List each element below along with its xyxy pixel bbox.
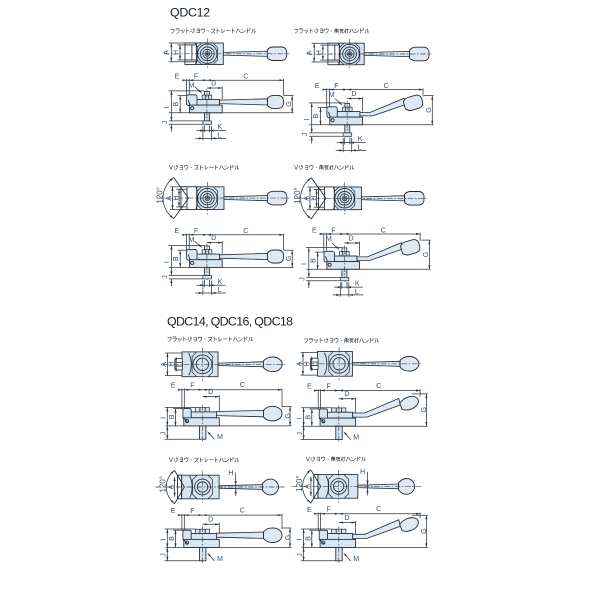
G7 front view: pivot marker bbox=[185, 541, 188, 544]
G8 front view: handle hub arm bbox=[327, 534, 353, 540]
G1 top view: jaw plate area bbox=[185, 43, 196, 65]
G8 front view: vertical centerline bbox=[338, 527, 340, 564]
G4 front view: K extension lines bbox=[341, 282, 343, 289]
G4 front view: bent handle rod bbox=[357, 243, 403, 261]
G4 top view: boss rosette circle bbox=[335, 189, 354, 208]
G6 front view: dimension G bbox=[425, 394, 427, 426]
G7 front view: dimension B bbox=[175, 530, 177, 547]
G3 front view: dimension B bbox=[179, 250, 181, 267]
G1 top view: handle knob bbox=[267, 47, 287, 61]
G4 front view: body block bbox=[327, 262, 360, 270]
svg-text:D: D bbox=[344, 514, 349, 522]
G8 top view: jaw spring clip bbox=[326, 476, 328, 497]
G3 front view: top stud bbox=[205, 246, 210, 250]
G7 top view: boss square with chamfered corners bbox=[193, 475, 213, 499]
G2 front view: dimension G bbox=[431, 96, 433, 125]
G7 top view: jaw spring clip bbox=[190, 476, 192, 497]
G6 top view: jaw pad lines bbox=[310, 361, 318, 363]
G1 top view: knurled nut rings bbox=[200, 47, 214, 61]
G8 top view: body block bbox=[314, 475, 358, 499]
svg-text:M: M bbox=[353, 434, 359, 442]
G5 front view: B top extension line bbox=[173, 408, 183, 410]
svg-text:I: I bbox=[300, 263, 308, 265]
G3 front view: dimension J bbox=[170, 279, 172, 286]
G7 front view: E extension lines bbox=[181, 514, 183, 531]
G7 top view: vertical centerline bbox=[202, 471, 204, 503]
svg-text:L: L bbox=[358, 143, 362, 151]
G5 top view: handle knob bbox=[263, 357, 282, 372]
G1 front view: vertical centerline bbox=[206, 89, 208, 127]
G1 front view: top stud bbox=[205, 91, 210, 95]
svg-text:M: M bbox=[217, 555, 223, 563]
G3 front view: stud collar bbox=[203, 276, 212, 279]
svg-text:B: B bbox=[304, 536, 312, 541]
G7 front view: dimension row line E-F-C bbox=[178, 514, 282, 516]
G7 front view: dimension I bbox=[166, 529, 168, 548]
G2 front view: jaw bbox=[327, 107, 337, 118]
svg-text:J: J bbox=[298, 277, 306, 281]
G3 top view: handle knob bbox=[267, 191, 287, 205]
G3 front view: M leader arrow bbox=[195, 241, 202, 247]
G3 top view: dimension A bbox=[172, 187, 174, 210]
G4 front view: F arrows bbox=[340, 233, 344, 235]
G5 top view: dimension A extension lines bbox=[165, 352, 182, 354]
G1 front view: body bottom extension line bbox=[169, 112, 294, 114]
svg-text:G: G bbox=[284, 413, 292, 419]
svg-text:E: E bbox=[315, 82, 320, 90]
G4 front view: dimension K line bbox=[334, 286, 363, 288]
G5 front view: jaw bbox=[183, 409, 191, 419]
svg-text:D: D bbox=[344, 390, 349, 398]
G1 front view: flange nut bbox=[202, 95, 212, 99]
svg-text:B: B bbox=[168, 414, 176, 419]
G1 top view: handle rod bbox=[223, 51, 267, 56]
G7 front view: G top extension line bbox=[282, 527, 291, 529]
G2 front view: dimension L line bbox=[336, 149, 367, 151]
G4 front view: C arrows bbox=[344, 233, 348, 235]
G6 front view: B top extension line bbox=[309, 408, 319, 410]
G2 front view: G top extension line bbox=[424, 95, 434, 97]
svg-text:C: C bbox=[243, 227, 248, 235]
G1 front view: body block bbox=[190, 105, 223, 113]
G2 front view: bent handle rod bbox=[360, 98, 406, 116]
G4 front view: vertical centerline bbox=[343, 245, 345, 283]
G8 top view: jaw area bbox=[314, 475, 318, 499]
G8 front view: C arrows bbox=[339, 513, 343, 515]
G5 front view: handle rod bbox=[216, 410, 263, 416]
G2 front view: dimension D bbox=[347, 98, 362, 100]
G3 front view: jaw inner edge bbox=[188, 255, 190, 262]
G8 top view: V-groove faces bbox=[311, 470, 321, 503]
G3 top view: dimension H bbox=[178, 189, 180, 207]
G1 top view: dimension A bbox=[170, 43, 172, 62]
G2 front view: handle knob bbox=[403, 94, 424, 112]
svg-text:B: B bbox=[304, 415, 312, 420]
G2 top view: knurled nut rings bbox=[343, 47, 357, 61]
G5 front view: handle hub arm bbox=[191, 412, 217, 418]
G5 front view: M leader arrow bbox=[208, 432, 214, 439]
G7 front view: dimension G bbox=[289, 528, 291, 548]
svg-text:K: K bbox=[218, 278, 223, 286]
svg-text:F: F bbox=[194, 227, 199, 235]
G1 top view: vertical centerline bbox=[206, 38, 208, 69]
svg-text:E: E bbox=[171, 382, 176, 390]
G5 front view: vertical centerline bbox=[202, 405, 204, 442]
G7 top view: boss ring inner bbox=[197, 482, 207, 492]
G1 front view: C arrows bbox=[207, 79, 211, 81]
G3 front view: flange nut bbox=[202, 250, 212, 254]
G3 front view: lower stud bbox=[205, 267, 210, 275]
G5 front view: E extension lines bbox=[181, 389, 183, 410]
G4 front view: dimension I bbox=[308, 247, 310, 277]
G6 front view: lower stud bbox=[336, 426, 342, 439]
G1 front view: C right extension line bbox=[283, 79, 285, 96]
G6 front view: C arrows bbox=[339, 389, 343, 391]
G6 top view: horizontal centerline bbox=[299, 363, 423, 365]
G8 top view: boss ring outer bbox=[331, 479, 347, 495]
G7 front view: handle rod bbox=[216, 532, 263, 538]
G2 front view: stud collar bbox=[343, 133, 352, 136]
G5 top view: dimension H bbox=[175, 363, 177, 367]
G7 top view: dimension A bbox=[174, 477, 176, 497]
G7 top view: boss ring outer bbox=[195, 479, 211, 495]
G5 front view: dimension D bbox=[203, 396, 220, 398]
G6 front view: dimension row line E-F-C bbox=[315, 390, 420, 392]
G2 front view: D right extension line bbox=[362, 97, 364, 111]
svg-text:B: B bbox=[309, 258, 317, 263]
G1 front view: jaw bbox=[187, 95, 197, 106]
G7 front view: body block bbox=[184, 539, 220, 547]
G8 front view: E extension lines bbox=[317, 513, 319, 531]
G2 front view: J extension lines bbox=[309, 132, 343, 134]
G2 front view: top stud bbox=[345, 103, 350, 107]
svg-text:A: A bbox=[163, 50, 171, 55]
G5 front view: G top extension line bbox=[282, 405, 291, 407]
svg-text:E: E bbox=[312, 226, 317, 234]
G7 top view: body block bbox=[178, 475, 220, 499]
caption flat-jaw straight-handle (G5) bbox=[168, 337, 253, 342]
G4 front view: flange nut bbox=[340, 252, 350, 256]
G2 front view: E extension lines bbox=[326, 88, 328, 107]
G6 top view: dimension A extension lines bbox=[301, 352, 318, 354]
G8 front view: D right extension line bbox=[355, 521, 357, 535]
svg-text:C: C bbox=[243, 73, 248, 81]
G3 front view: body bottom extension line bbox=[169, 266, 294, 268]
G7 front view: I top extension line bbox=[165, 528, 195, 530]
G6 top view: handle knob bbox=[400, 357, 419, 372]
svg-text:M: M bbox=[326, 235, 332, 243]
svg-text:L: L bbox=[218, 131, 222, 139]
G5 front view: handle knob bbox=[264, 406, 282, 421]
svg-text:D: D bbox=[208, 388, 213, 396]
G1 front view: D right extension line bbox=[221, 87, 223, 100]
G4 top view: handle knob bbox=[405, 192, 425, 206]
caption V-jaw angle-handle (G4) bbox=[294, 165, 353, 170]
svg-text:J: J bbox=[161, 120, 169, 124]
G6 front view: dimension D bbox=[339, 398, 356, 400]
G1 front view: dimension row line E-F-C bbox=[183, 79, 284, 81]
caption flat-jaw straight-handle (G1) bbox=[171, 28, 256, 33]
G2 front view: body bottom extension line bbox=[309, 124, 433, 126]
G7 top view: 120 degree arc bbox=[166, 470, 174, 503]
G1 top view: boss square with chamfered corners bbox=[197, 43, 217, 65]
G2 front view: pivot marker bbox=[331, 119, 334, 122]
svg-text:F: F bbox=[190, 507, 195, 515]
G5 front view: dimension row line E-F-C bbox=[178, 389, 282, 391]
svg-text:G: G bbox=[420, 528, 428, 534]
G4 front view: C right extension line bbox=[419, 233, 421, 241]
G1 front view: E arrows bbox=[182, 79, 186, 81]
G6 top view: body block bbox=[318, 351, 353, 376]
G5 top view: jaw pad lines bbox=[175, 362, 183, 364]
G5 front view: dimension B bbox=[175, 409, 177, 426]
G3 top view: boss rosette circle bbox=[198, 188, 217, 207]
svg-text:QDC14, QDC16, QDC18: QDC14, QDC16, QDC18 bbox=[167, 314, 293, 328]
svg-text:F: F bbox=[334, 82, 339, 90]
G2 front view: body block bbox=[330, 117, 363, 125]
svg-text:M: M bbox=[189, 81, 195, 89]
G1 front view: stud collar bbox=[203, 121, 212, 124]
G1 front view: I top extension line bbox=[169, 90, 205, 92]
G6 front view: dimension I bbox=[303, 408, 305, 427]
caption V-jaw straight-handle (G7) bbox=[169, 457, 238, 462]
G5 front view: C right extension line bbox=[281, 389, 283, 408]
svg-text:H: H bbox=[360, 468, 365, 476]
svg-text:I: I bbox=[303, 119, 311, 121]
svg-text:D: D bbox=[351, 90, 356, 98]
G5 front view: pivot marker bbox=[185, 419, 188, 422]
G5 top view: boss ring inner bbox=[196, 358, 208, 370]
G2 top view: body block bbox=[328, 43, 364, 64]
G1 top view: boss rosette circle bbox=[198, 44, 217, 63]
G5 front view: lower stud bbox=[200, 426, 206, 439]
G7 front view: F arrows bbox=[198, 514, 202, 516]
G5 front view: dimension I bbox=[166, 407, 168, 426]
G7 top view: V-groove faces bbox=[175, 470, 185, 503]
G2 front view: F arrows bbox=[343, 89, 347, 91]
svg-text:D: D bbox=[211, 234, 216, 242]
G3 front view: D right extension line bbox=[221, 241, 223, 254]
G4 front view: stud thread lines bbox=[342, 272, 347, 274]
G3 front view: E arrows bbox=[182, 234, 186, 236]
G7 top view: horizontal centerline bbox=[156, 486, 286, 488]
G6 top view: jaw pad block bbox=[310, 358, 318, 369]
svg-text:B: B bbox=[168, 536, 176, 541]
G3 front view: stud thread lines bbox=[205, 270, 210, 272]
G3 front view: C right extension line bbox=[283, 234, 285, 251]
G7 front view: lower stud bbox=[200, 548, 206, 561]
svg-text:H: H bbox=[228, 469, 233, 477]
G8 front view: dimension G bbox=[425, 515, 427, 547]
G2 front view: dimension row line E-F-C bbox=[323, 89, 423, 91]
G8 front view: dimension row line E-F-C bbox=[315, 513, 420, 515]
G7 front view: J bottom extension line bbox=[165, 560, 200, 562]
G3 top view: jaw area bbox=[181, 187, 197, 210]
G2 top view: dimension A extension lines bbox=[312, 42, 328, 44]
G5 top view: jaw spring clip bbox=[189, 354, 191, 376]
G1 top view: dimension H bbox=[179, 45, 181, 60]
G3 front view: vertical centerline bbox=[206, 244, 208, 282]
svg-text:120°: 120° bbox=[159, 476, 168, 493]
svg-text:G: G bbox=[285, 101, 293, 107]
G7 front view: handle knob bbox=[264, 528, 283, 543]
G6 top view: boss ring outer bbox=[330, 354, 349, 373]
G4 front view: handle hub arm bbox=[334, 256, 357, 262]
G8 front view: handle knob bbox=[399, 515, 421, 533]
G7 front view: dimension J bbox=[166, 548, 168, 561]
G1 front view: E extension lines bbox=[185, 79, 187, 96]
G3 top view: jaw plate lines bbox=[176, 188, 187, 190]
G6 front view: cap face lines bbox=[336, 408, 341, 412]
G3 top view: jaw plate bold edge bbox=[186, 187, 188, 210]
G6 front view: handle knob bbox=[399, 394, 421, 412]
G4 front view: E arrows bbox=[320, 233, 324, 235]
G5 top view: vertical centerline bbox=[201, 348, 203, 381]
G6 front view: M leader arrow bbox=[344, 433, 350, 440]
G3 front view: dimension L line bbox=[196, 292, 227, 294]
G3 top view: 120 degree arc bbox=[163, 178, 174, 219]
G1 front view: dimension K line bbox=[197, 130, 226, 132]
G7 front view: top cap bbox=[195, 529, 209, 533]
G3 top view: knurled nut rings bbox=[201, 191, 215, 205]
G4 front view: pivot marker bbox=[328, 263, 331, 266]
G7 front view: jaw inner edge bbox=[184, 540, 188, 544]
G3 top view: jaw spring clip bbox=[196, 188, 198, 209]
G5 front view: J bottom extension line bbox=[165, 438, 200, 440]
svg-text:B: B bbox=[172, 256, 180, 261]
G5 front view: E arrows bbox=[178, 389, 182, 391]
svg-text:I: I bbox=[163, 107, 171, 109]
G5 top view: boss square with chamfered corners bbox=[192, 352, 213, 377]
svg-text:I: I bbox=[159, 417, 167, 419]
G2 front view: flange nut bbox=[343, 107, 353, 111]
G4 front view: dimension L line bbox=[333, 294, 364, 296]
G1 front view: nut face lines bbox=[205, 95, 208, 99]
G8 top view: vertical centerline bbox=[338, 470, 340, 502]
G5 front view: body bottom extension line bbox=[166, 425, 292, 427]
G8 front view: cap face lines bbox=[336, 529, 341, 533]
G5 top view: horizontal centerline bbox=[163, 363, 285, 365]
G2 front view: jaw inner edge bbox=[329, 112, 331, 119]
G5 front view: top cap bbox=[195, 408, 209, 412]
G4 top view: knurled nut rings bbox=[338, 191, 352, 205]
G6 front view: jaw inner edge bbox=[321, 419, 325, 423]
G4 front view: dimension row line E-F-C bbox=[320, 233, 420, 235]
G5 top view: jaw pad block bbox=[175, 359, 183, 370]
svg-text:H: H bbox=[172, 50, 180, 55]
G4 front view: body bottom extension line bbox=[306, 268, 430, 270]
G4 top view: jaw plate bold edge bbox=[324, 187, 326, 210]
G2 top view: handle knob bbox=[410, 47, 430, 61]
G1 front view: B top extension line bbox=[178, 95, 188, 97]
G1 front view: dimension G bbox=[291, 96, 293, 113]
G8 front view: J bottom extension line bbox=[301, 560, 336, 562]
svg-text:E: E bbox=[307, 383, 312, 391]
G8 front view: I top extension line bbox=[301, 528, 331, 530]
G2 front view: C right extension line bbox=[422, 88, 424, 96]
G3 front view: dimension D bbox=[207, 242, 222, 244]
G6 front view: E extension lines bbox=[317, 389, 319, 409]
G6 front view: pivot marker bbox=[322, 420, 325, 423]
svg-text:C: C bbox=[384, 82, 389, 90]
G4 front view: dimension D bbox=[344, 242, 359, 244]
G8 front view: dimension D bbox=[339, 522, 356, 524]
svg-text:C: C bbox=[240, 381, 245, 389]
G3 front view: L extension lines bbox=[202, 281, 204, 295]
G7 top view: dimension H line bbox=[235, 473, 237, 497]
G2 top view: vertical centerline bbox=[349, 39, 351, 70]
G4 front view: dimension J bbox=[308, 281, 310, 288]
G5 top view: boss ring outer bbox=[193, 355, 212, 374]
svg-text:G: G bbox=[284, 535, 292, 541]
G4 front view: D right extension line bbox=[359, 242, 361, 256]
G4 top view: jaw area bbox=[319, 187, 335, 210]
G1 front view: pivot marker bbox=[191, 107, 194, 110]
G1 top view: jaw spring clip bbox=[196, 44, 198, 64]
G2 top view: boss rosette circle bbox=[340, 44, 359, 63]
G8 top view: handle rod bbox=[358, 484, 399, 489]
G1 top view: dimension A extension lines bbox=[169, 42, 185, 44]
svg-text:F: F bbox=[327, 382, 332, 390]
G1 front view: dimension B bbox=[179, 96, 181, 113]
G2 front view: M leader arrow bbox=[335, 99, 342, 105]
svg-text:M: M bbox=[353, 555, 359, 563]
svg-text:C: C bbox=[240, 507, 245, 515]
svg-text:J: J bbox=[296, 432, 304, 436]
G3 front view: K extension lines bbox=[203, 280, 205, 287]
G2 top view: jaw plate area bbox=[328, 43, 339, 64]
G8 front view: pivot marker bbox=[322, 541, 325, 544]
G8 top view: handle knob bbox=[399, 479, 415, 495]
svg-text:E: E bbox=[175, 73, 180, 81]
svg-text:M: M bbox=[189, 236, 195, 244]
G4 front view: dimension B bbox=[317, 252, 319, 269]
G4 top view: 120 degree arc bbox=[301, 178, 312, 219]
G2 top view: dimension H extension lines bbox=[320, 44, 328, 46]
G4 front view: jaw inner edge bbox=[326, 257, 328, 264]
G6 top view: handle rod bbox=[352, 361, 400, 366]
G2 front view: C arrows bbox=[347, 89, 351, 91]
svg-text:E: E bbox=[171, 507, 176, 515]
G2 front view: vertical centerline bbox=[346, 101, 348, 139]
G2 front view: dimension B bbox=[320, 108, 322, 125]
G4 front view: M leader arrow bbox=[332, 243, 339, 249]
G1 front view: dimension I bbox=[170, 91, 172, 121]
G6 front view: handle hub arm bbox=[327, 412, 353, 418]
svg-text:I: I bbox=[163, 261, 171, 263]
G5 front view: C arrows bbox=[203, 389, 207, 391]
G5 front view: F arrows bbox=[198, 389, 202, 391]
G3 front view: pivot marker bbox=[191, 261, 194, 264]
svg-text:G: G bbox=[422, 252, 430, 258]
G7 front view: M leader arrow bbox=[208, 554, 214, 561]
svg-text:F: F bbox=[331, 226, 336, 234]
G3 front view: dimension G bbox=[291, 250, 293, 267]
G3 front view: B top extension line bbox=[178, 249, 188, 251]
G1 front view: dimension L line bbox=[196, 137, 227, 139]
svg-text:K: K bbox=[358, 135, 363, 143]
G4 front view: stud collar bbox=[340, 277, 349, 280]
G2 front view: lower stud bbox=[345, 125, 350, 133]
G1 front view: J extension lines bbox=[169, 120, 203, 122]
svg-text:QDC12: QDC12 bbox=[170, 6, 210, 20]
G4 front view: L extension lines bbox=[339, 283, 341, 297]
svg-text:J: J bbox=[160, 431, 168, 435]
G8 top view: dimension H line bbox=[367, 472, 369, 496]
G3 front view: handle rod bbox=[220, 253, 268, 259]
svg-text:E: E bbox=[175, 227, 180, 235]
svg-text:C: C bbox=[381, 226, 386, 234]
